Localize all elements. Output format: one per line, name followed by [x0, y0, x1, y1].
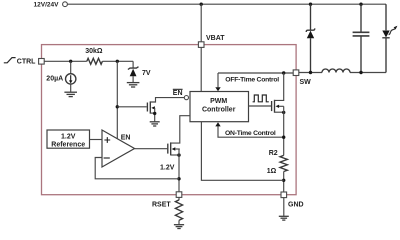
- terminal GND: [281, 192, 304, 208]
- transistor Q1 power NMOS: [272, 73, 286, 155]
- terminal CTRL: [17, 59, 44, 66]
- wire VBAT to PWM controller top: [200, 47, 202, 91]
- svg-text:1.2V: 1.2V: [61, 133, 76, 140]
- wire resistor to zener corner: [102, 60, 133, 62]
- node feedback tap: [177, 177, 180, 180]
- wire EN divider column: [116, 61, 118, 138]
- terminal RSET: [152, 192, 182, 209]
- wire ON-time control with arrow: [215, 122, 283, 137]
- node power FET drain on SW wire: [282, 71, 285, 74]
- svg-text:EN: EN: [173, 90, 183, 97]
- wire sense return from PWM bottom: [201, 122, 283, 181]
- supply terminal 12V/24V: [34, 2, 68, 9]
- node sense return tap: [282, 179, 285, 182]
- wire M1 gate lead: [117, 106, 147, 108]
- LED D2: [382, 4, 397, 72]
- svg-text:Reference: Reference: [51, 141, 85, 148]
- svg-text:30kΩ: 30kΩ: [85, 48, 103, 55]
- svg-text:20µA: 20µA: [46, 76, 63, 83]
- node CTRL row / current source tap: [69, 60, 72, 63]
- inductor L1: [322, 69, 350, 73]
- svg-text:OFF-Time Control: OFF-Time Control: [225, 77, 279, 84]
- node top rail at diode column: [309, 2, 312, 5]
- capacitor C1: [353, 4, 370, 72]
- resistor 30k: [85, 48, 103, 65]
- svg-text:SW: SW: [300, 79, 312, 86]
- svg-text:CTRL: CTRL: [17, 59, 36, 66]
- node EN bubble: [173, 89, 189, 99]
- transistor M1: [147, 98, 184, 122]
- wire PWM output to gate: [249, 105, 272, 107]
- zener diode 7V: [128, 61, 151, 82]
- op-amp U1: [102, 130, 135, 167]
- PWM controller box: [190, 92, 249, 122]
- wire CTRL input row: [44, 60, 87, 62]
- pulse waveform glyph: [253, 95, 269, 102]
- wire op-amp output to M2 gate: [135, 148, 168, 150]
- wire feedback to op-amp minus: [95, 158, 179, 179]
- node SW line at diode column: [309, 71, 312, 74]
- node top rail at capacitor column: [359, 2, 362, 5]
- svg-text:Controller: Controller: [202, 107, 236, 114]
- ground (zener): [127, 83, 140, 87]
- svg-text:12V/24V: 12V/24V: [34, 2, 60, 9]
- svg-text:ON-Time Control: ON-Time Control: [225, 130, 276, 137]
- pulse source CTRL glyph: [4, 58, 16, 63]
- wire R2 to GND terminal: [283, 172, 285, 193]
- box 1.2V reference: [47, 130, 90, 148]
- svg-text:7V: 7V: [142, 70, 151, 77]
- svg-text:1.2V: 1.2V: [160, 164, 175, 171]
- terminal SW: [293, 70, 311, 86]
- svg-text:R2: R2: [269, 150, 278, 157]
- diode D1 schottky: [306, 4, 315, 72]
- ground (M1 source): [150, 122, 160, 126]
- wire top supply rail: [68, 3, 387, 5]
- wire SW output line: [299, 72, 386, 74]
- ground (RSET): [174, 225, 184, 229]
- svg-text:VBAT: VBAT: [206, 35, 225, 42]
- node divider junction: [116, 60, 119, 63]
- transistor M2: [168, 116, 190, 192]
- wire reference to op-amp plus: [90, 139, 103, 141]
- node M1 gate tap: [116, 105, 119, 108]
- wire VBAT drop from rail: [200, 4, 202, 42]
- svg-text:PWM: PWM: [210, 98, 227, 105]
- IC boundary (red): [42, 45, 297, 195]
- svg-text:1Ω: 1Ω: [267, 168, 277, 175]
- resistor RSET: [175, 197, 182, 224]
- terminal VBAT: [198, 35, 225, 48]
- node ON-time tap: [282, 136, 285, 139]
- svg-text:EN: EN: [121, 135, 131, 142]
- svg-text:RSET: RSET: [152, 201, 171, 208]
- ground (GND pin): [279, 216, 289, 220]
- ground (current source): [64, 92, 77, 96]
- node SW line at capacitor column: [359, 71, 362, 74]
- wire OFF-time control with arrow: [215, 73, 293, 91]
- resistor R2: [267, 150, 288, 175]
- svg-text:GND: GND: [288, 201, 304, 208]
- wire GND terminal to ground: [283, 198, 285, 216]
- current source 20uA: [46, 61, 76, 92]
- node top rail at VBAT column: [200, 2, 203, 5]
